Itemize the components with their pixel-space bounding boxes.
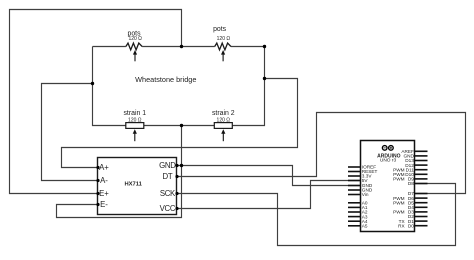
svg-text:PWM: PWM <box>393 200 405 205</box>
Arduino infinity logo <box>382 146 393 151</box>
pin Arduino D5 (right side) <box>393 200 427 205</box>
svg-text:VCC: VCC <box>160 204 176 213</box>
pin Arduino IOREF (left side) <box>348 165 376 170</box>
pin Arduino A4 (left side) <box>348 219 368 224</box>
node junction bridge top-right corner <box>263 45 266 48</box>
wheatstone bridge frame wires <box>93 47 265 126</box>
amplifier module HX711 box <box>98 158 177 215</box>
label Wheatstone bridge <box>135 75 196 84</box>
pin HX711 SCK <box>160 189 179 198</box>
microcontroller U1 Arduino UNO r3 body <box>361 141 415 232</box>
pin HX711 DT <box>163 172 179 181</box>
svg-text:A+: A+ <box>99 163 109 172</box>
svg-text:Vin: Vin <box>362 192 369 197</box>
svg-text:strain 1: strain 1 <box>123 110 146 117</box>
svg-text:E+: E+ <box>99 189 109 198</box>
svg-text:PWM: PWM <box>393 210 405 215</box>
node junction strain gauges mid <box>180 124 183 127</box>
svg-text:E-: E- <box>100 200 108 209</box>
svg-text:pots: pots <box>213 26 227 33</box>
pin Arduino Vin (left side) <box>348 192 369 197</box>
pin Arduino A3 (left side) <box>348 214 368 219</box>
label ARDUINO <box>377 153 400 159</box>
label pots 2 name <box>213 26 227 33</box>
strain gauge strain 2 (120 ohm) on bridge bottom-right <box>214 123 232 142</box>
pin Arduino D11 (right side) <box>393 167 427 172</box>
wire A+ net: HX711 A+ left, up, right, up to bridge right mid <box>62 79 298 168</box>
svg-text:strain 2: strain 2 <box>212 110 235 117</box>
label pots 1 value 120 ohm <box>128 36 142 42</box>
wire SCK net: HX711 SCK right, down and under Arduino, up to D8 <box>177 184 456 246</box>
svg-text:SCK: SCK <box>160 189 176 198</box>
pin HX711 A+ <box>96 163 109 172</box>
pin HX711 VCC <box>160 204 179 213</box>
label HX711 <box>124 182 142 188</box>
label pots 2 value 120 ohm <box>217 36 231 42</box>
label strain 2 name <box>212 110 235 117</box>
svg-text:A5: A5 <box>362 224 368 229</box>
pin Arduino D3 (right side) <box>393 210 427 215</box>
wire A- net: HX711 A- left, up, right to bridge left mid <box>42 84 98 181</box>
pin Arduino 3.3V (left side) <box>348 174 372 179</box>
strain gauge strain 1 (120 ohm) on bridge bottom-left <box>126 123 144 142</box>
pin Arduino D13 (right side) <box>405 158 427 163</box>
pin Arduino A0 (left side) <box>348 201 368 206</box>
pin Arduino D12 (right side) <box>405 163 427 168</box>
node junction bridge right mid (A+) <box>263 77 266 80</box>
pin Arduino GND (left side) <box>348 188 373 193</box>
svg-text:DT: DT <box>163 172 173 181</box>
pin Arduino D1 (right side) <box>399 219 428 224</box>
wire DT net: HX711 DT right, up and over Arduino, down to D7 <box>177 113 466 194</box>
svg-text:120 Ω: 120 Ω <box>128 36 142 42</box>
svg-text:PWM: PWM <box>393 177 405 182</box>
potentiometer pots 2 (120 ohm) on bridge top-right <box>215 43 231 61</box>
wire VCC net: HX711 VCC right, up, right to Arduino 5V pin <box>177 181 361 209</box>
svg-text:D0: D0 <box>408 223 414 228</box>
pin HX711 A- <box>96 176 108 185</box>
node junction bridge top mid (E+ feed) <box>180 45 183 48</box>
pin Arduino RESET (left side) <box>348 169 378 174</box>
label UNO r3 <box>380 158 397 164</box>
svg-text:120 Ω: 120 Ω <box>128 118 142 124</box>
svg-text:RX: RX <box>398 223 405 228</box>
pin Arduino D0 (right side) <box>398 223 427 228</box>
pin Arduino 5V (left side) <box>348 178 368 183</box>
svg-text:HX711: HX711 <box>124 182 142 188</box>
pin Arduino A1 (left side) <box>348 205 368 210</box>
pin Arduino AREF (right side) <box>401 149 427 154</box>
svg-text:UNO r3: UNO r3 <box>380 158 397 164</box>
pin Arduino D2 (right side) <box>408 214 428 219</box>
node junction bridge left mid (A-) <box>91 82 94 85</box>
svg-text:GND: GND <box>159 161 176 170</box>
potentiometer pots 1 (120 ohm) on bridge top-left <box>126 43 142 61</box>
svg-text:D8: D8 <box>408 181 414 186</box>
pin HX711 E- <box>96 200 108 209</box>
node junction GND wire meets E- drop <box>180 164 183 167</box>
pin Arduino D4 (right side) <box>408 205 428 210</box>
wire E+ net: HX711 E+ left, up outer loop, right, down to bridge top mid <box>10 10 182 194</box>
svg-text:Wheatstone bridge: Wheatstone bridge <box>135 75 196 84</box>
label strain 2 value 120 ohm <box>217 118 231 124</box>
label strain 1 name <box>123 110 146 117</box>
pin Arduino GND (left side) <box>348 183 373 188</box>
wire E- net: HX711 E- left, down, right under box, up to strain junction <box>57 126 182 218</box>
svg-text:120 Ω: 120 Ω <box>217 36 231 42</box>
pin Arduino D10 (right side) <box>393 172 427 177</box>
pin HX711 E+ <box>96 189 109 198</box>
label pots 1 name <box>127 30 141 37</box>
pin Arduino A5 (left side) <box>348 224 368 229</box>
pin Arduino GND (right side) <box>403 154 427 159</box>
pin HX711 GND <box>159 161 178 170</box>
label strain 1 value 120 ohm <box>128 118 142 124</box>
pin Arduino D9 (right side) <box>393 177 427 182</box>
svg-text:A-: A- <box>100 176 108 185</box>
pin Arduino D6 (right side) <box>393 196 427 201</box>
wire GND net: HX711 GND right, down, right to Arduino GND pin <box>177 166 361 186</box>
svg-text:120 Ω: 120 Ω <box>217 118 231 124</box>
pin Arduino D7 (right side) <box>408 191 428 196</box>
pin Arduino A2 (left side) <box>348 210 368 215</box>
pin Arduino D8 (right side) <box>408 181 428 186</box>
